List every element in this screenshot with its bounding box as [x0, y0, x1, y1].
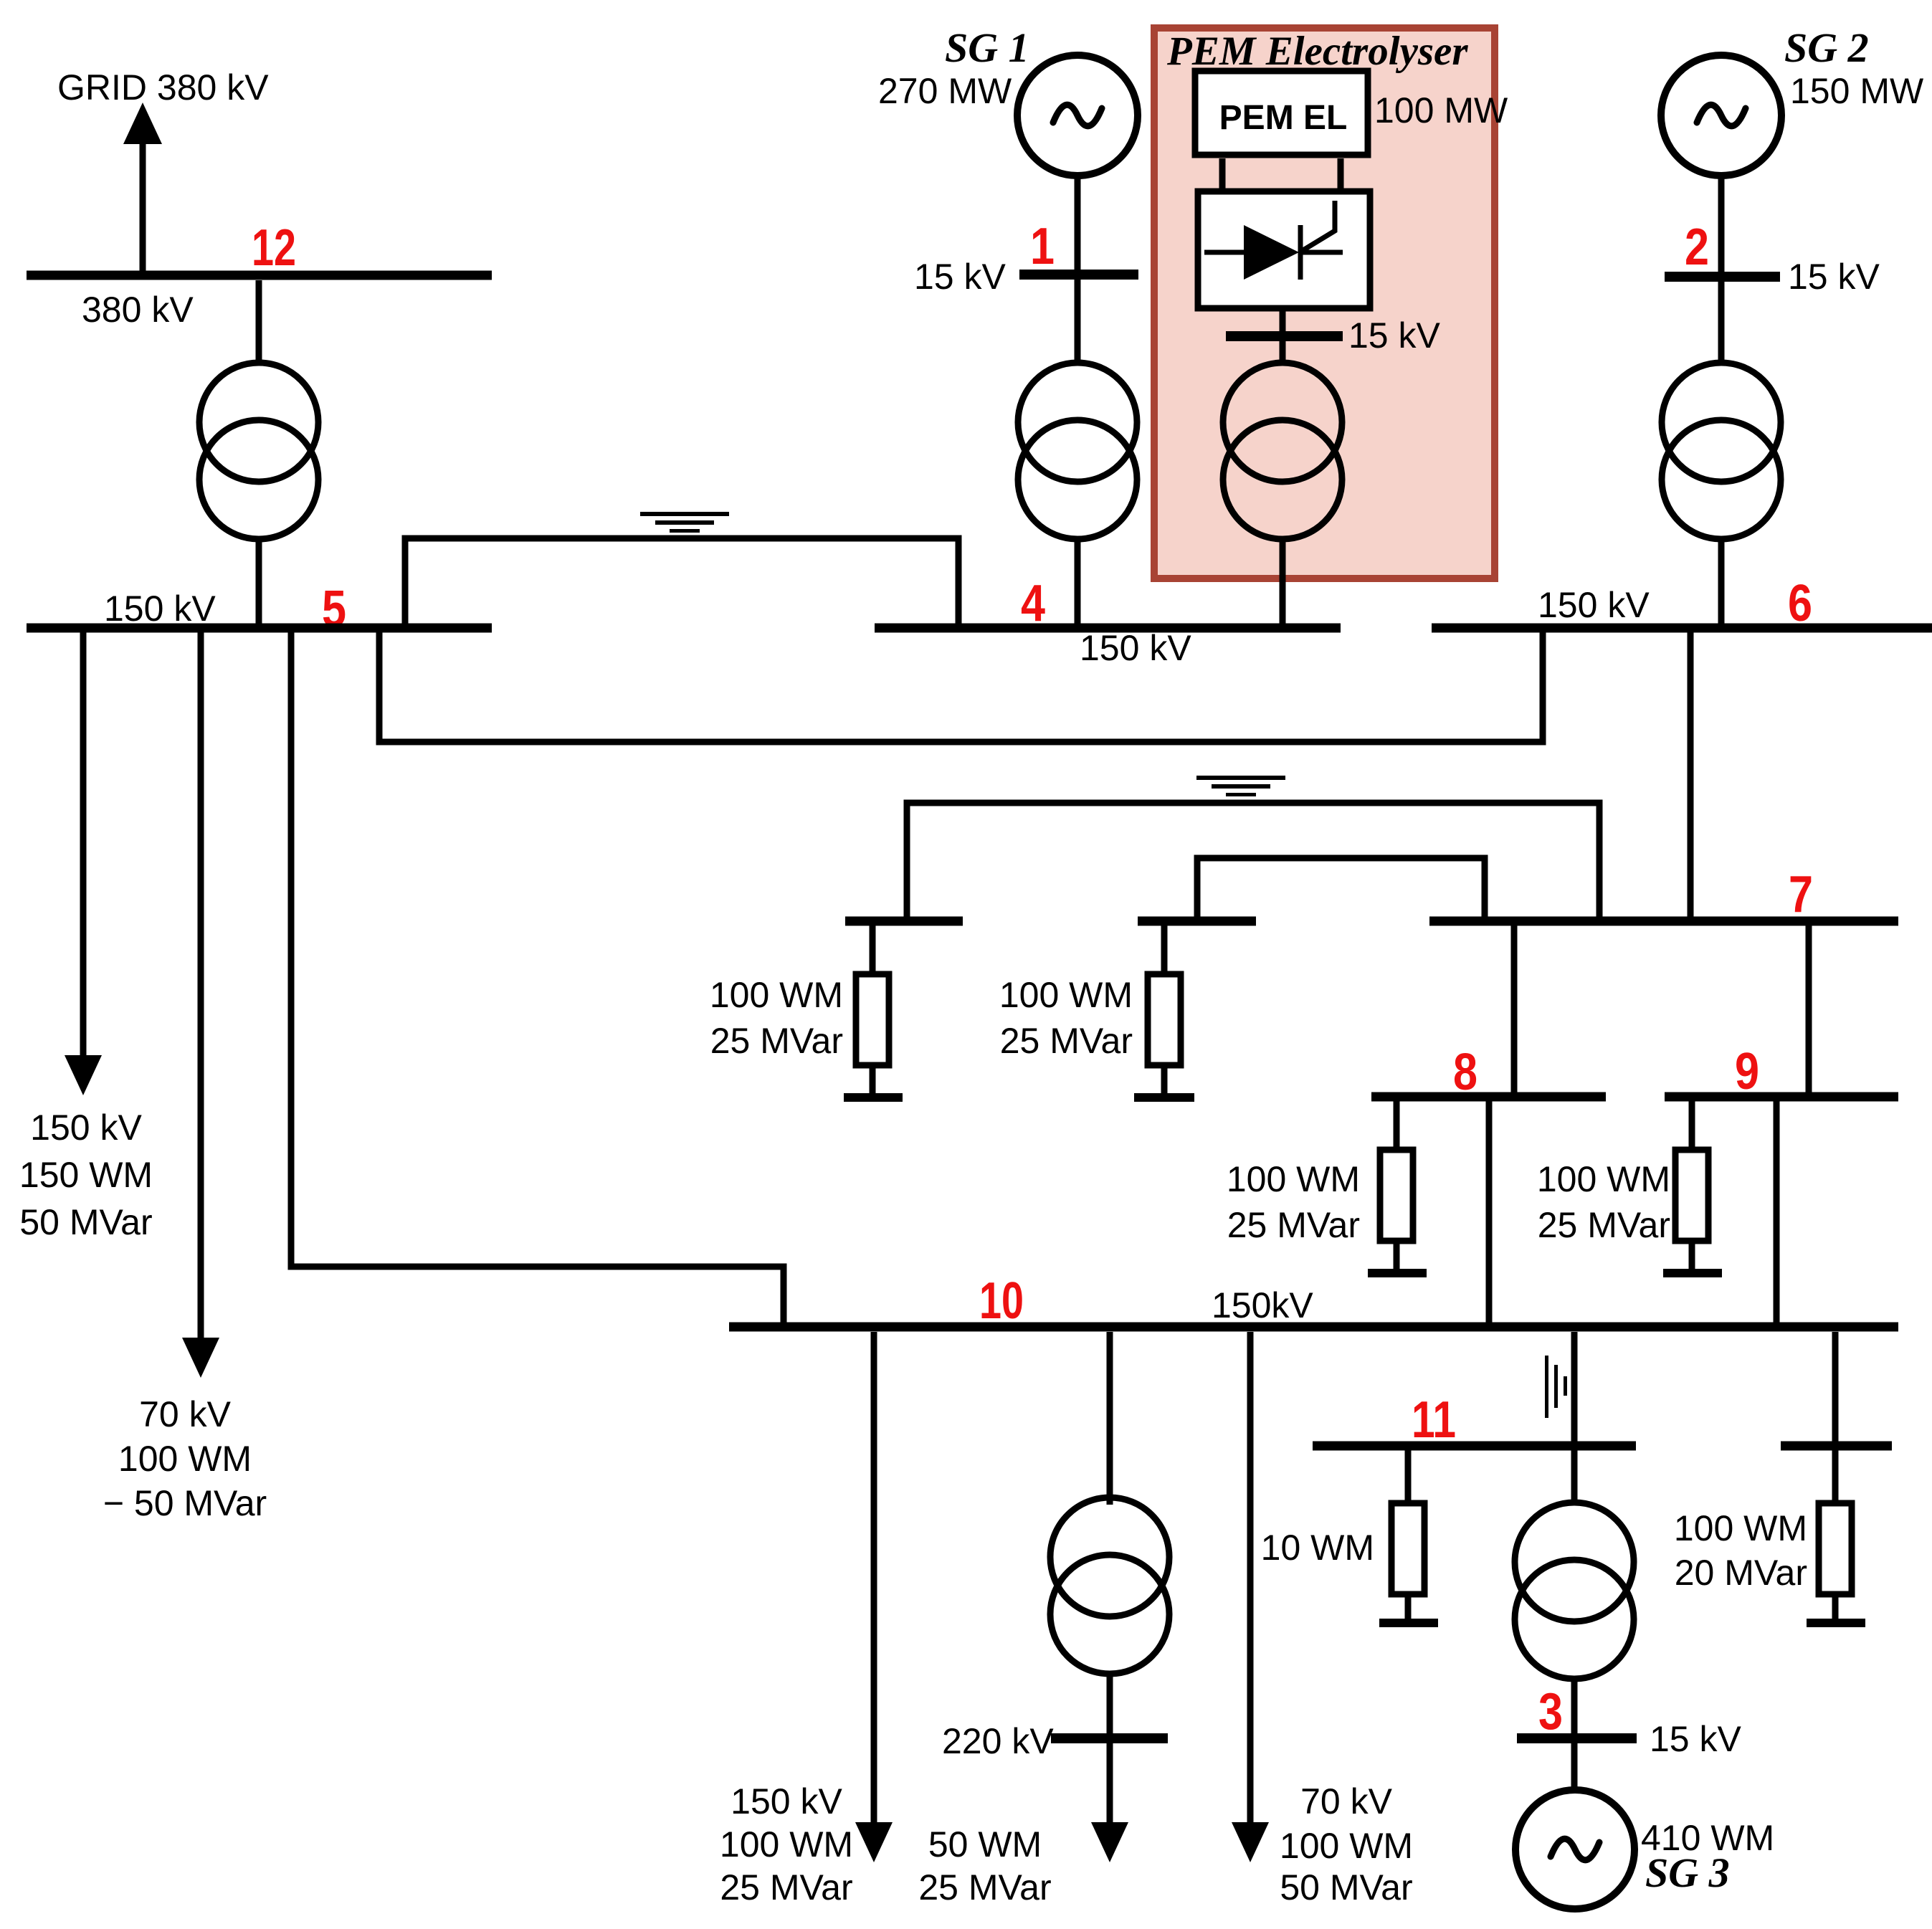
transformer T10-220 — [1050, 1497, 1169, 1674]
wire bus3 to SG3 — [1571, 1743, 1578, 1794]
load arrowhead 70kV — [1232, 1822, 1269, 1862]
wire bus8 to bus10 — [1486, 1101, 1493, 1327]
wire bus9 to bus10 — [1774, 1101, 1780, 1327]
svg-text:PEM EL: PEM EL — [1219, 99, 1348, 137]
svg-text:100 WM: 100 WM — [999, 975, 1133, 1015]
svg-text:10: 10 — [979, 1272, 1024, 1330]
svg-text:PEM Electrolyser: PEM Electrolyser — [1166, 29, 1468, 74]
svg-text:25 MVar: 25 MVar — [1227, 1205, 1360, 1245]
load arrow wire from bus5 — [80, 632, 87, 1058]
load 2 end bar — [1134, 1093, 1194, 1102]
load 6 end bar — [1807, 1619, 1865, 1627]
transformer T1-4 — [1018, 363, 1137, 539]
load 4 wire upper — [1689, 1101, 1695, 1150]
wire bus10 to load6 cap — [1832, 1332, 1839, 1446]
bus 2 — [1665, 272, 1780, 282]
svg-text:380 kV: 380 kV — [82, 290, 194, 330]
wire transformer to bus3 — [1571, 1676, 1578, 1738]
svg-text:100 WM: 100 WM — [1537, 1159, 1670, 1199]
load bus cap 2 — [1138, 917, 1256, 926]
line marker on line 5-4 — [640, 512, 729, 533]
svg-text:1: 1 — [1030, 218, 1055, 275]
transformer T2-6 — [1662, 363, 1781, 539]
PEM 15kV bus — [1226, 331, 1343, 341]
svg-text:50 MVar: 50 MVar — [1280, 1867, 1412, 1907]
svg-text:GRID 380 kV: GRID 380 kV — [57, 67, 269, 108]
svg-text:8: 8 — [1453, 1044, 1477, 1101]
wire bus12 to transformer — [256, 280, 262, 365]
svg-text:150 kV: 150 kV — [1538, 585, 1650, 625]
svg-text:50 WM: 50 WM — [928, 1824, 1042, 1864]
wire line B bus7 to load bus — [1197, 858, 1485, 921]
svg-text:150 MW: 150 MW — [1790, 71, 1924, 111]
load 2 resistor — [1148, 974, 1181, 1065]
svg-text:15 kV: 15 kV — [1650, 1719, 1742, 1759]
wire bus7 to bus8 — [1511, 925, 1518, 1097]
load 5 wire upper — [1405, 1450, 1412, 1503]
load 1 end bar — [844, 1093, 903, 1102]
wire transformer to bus6 — [1718, 536, 1725, 628]
220 kV bus — [1051, 1733, 1168, 1743]
load bus cap 6 — [1781, 1442, 1892, 1451]
bus 5 — [27, 624, 492, 633]
converter box — [1198, 191, 1370, 308]
svg-text:100 WM: 100 WM — [1227, 1159, 1360, 1199]
generator SG3 — [1515, 1790, 1634, 1909]
svg-text:100 WM: 100 WM — [720, 1824, 853, 1864]
wire bus6 to bus7 — [1688, 632, 1694, 921]
svg-text:70 kV: 70 kV — [139, 1394, 232, 1434]
wire line bus5 to bus4 — [405, 538, 958, 628]
wire PEM EL to converter left — [1219, 158, 1226, 189]
wire SG2 to bus2 — [1718, 173, 1725, 277]
bus 9 — [1665, 1092, 1898, 1102]
load 2 wire lower — [1161, 1065, 1168, 1097]
load 4 end bar — [1663, 1269, 1722, 1277]
svg-text:4: 4 — [1021, 575, 1045, 632]
transformer T11-3 — [1515, 1502, 1634, 1679]
wire PEM EL to converter right — [1338, 158, 1344, 189]
wire bus11 to transformer T11 — [1571, 1450, 1578, 1505]
svg-text:6: 6 — [1788, 575, 1812, 632]
svg-text:15 kV: 15 kV — [914, 257, 1007, 297]
generator SG2 — [1661, 55, 1781, 176]
svg-text:11: 11 — [1412, 1391, 1456, 1449]
svg-text:25 MVar: 25 MVar — [1538, 1205, 1670, 1245]
svg-text:220 kV: 220 kV — [942, 1721, 1054, 1761]
svg-text:12: 12 — [252, 219, 296, 277]
svg-text:100 WM: 100 WM — [710, 975, 843, 1015]
load 3 resistor — [1380, 1150, 1413, 1241]
load 6 wire upper — [1832, 1450, 1839, 1503]
load 1 wire upper — [870, 925, 876, 974]
bus 7 — [1429, 917, 1898, 926]
wire transformer to 220kV bus — [1107, 1672, 1113, 1738]
line marker on line 10-11 — [1545, 1356, 1567, 1418]
svg-text:70 kV: 70 kV — [1300, 1781, 1393, 1821]
svg-text:150 kV: 150 kV — [30, 1108, 142, 1148]
svg-text:100 WM: 100 WM — [1674, 1508, 1807, 1548]
wire PEM transformer to bus4 — [1280, 536, 1286, 628]
svg-text:150 kV: 150 kV — [104, 589, 216, 629]
svg-text:25 MVar: 25 MVar — [720, 1867, 852, 1907]
load arrow wire 70kV from bus10 — [1247, 1332, 1254, 1822]
svg-text:150kV: 150kV — [1212, 1285, 1313, 1325]
bus 4 — [875, 624, 1341, 633]
load 6 wire lower — [1832, 1594, 1839, 1623]
svg-text:3: 3 — [1538, 1683, 1563, 1740]
load 4 wire lower — [1689, 1241, 1695, 1273]
load 5 end bar — [1379, 1619, 1438, 1627]
wire bus2 to transformer — [1718, 282, 1725, 365]
wire transformer to bus4 — [1075, 536, 1081, 628]
bus 11 — [1313, 1442, 1636, 1451]
load 4 resistor — [1675, 1150, 1708, 1241]
wire converter to PEM bus — [1280, 308, 1286, 331]
load bus cap 1 — [845, 917, 963, 926]
svg-text:15 kV: 15 kV — [1348, 315, 1441, 356]
bus 10 — [729, 1323, 1898, 1332]
wire line bus5 to bus6 — [379, 632, 1543, 742]
grid arrowhead — [123, 103, 162, 144]
svg-text:100 WM: 100 WM — [1280, 1826, 1413, 1866]
wire transformer to bus5 — [256, 536, 262, 628]
bus 3 — [1517, 1733, 1637, 1743]
svg-text:9: 9 — [1735, 1043, 1759, 1100]
wire line A bus7 to load bus — [907, 803, 1599, 921]
svg-text:SG 3: SG 3 — [1645, 1849, 1730, 1896]
load 6 resistor — [1819, 1503, 1852, 1594]
svg-text:150 WM: 150 WM — [19, 1155, 153, 1195]
grid arrow wire — [140, 140, 146, 275]
wire bus7 to bus9 — [1806, 925, 1812, 1097]
wire line bus5 to bus10 — [291, 632, 784, 1328]
load 2 wire upper — [1161, 925, 1168, 974]
svg-text:7: 7 — [1789, 866, 1813, 923]
bus 12 — [27, 271, 492, 280]
load 1 wire lower — [870, 1065, 876, 1097]
arrow wire below 220kV bus — [1107, 1743, 1113, 1822]
wire SG1 to bus1 — [1075, 173, 1081, 275]
svg-text:SG 2: SG 2 — [1784, 24, 1869, 71]
line marker on line A — [1196, 776, 1285, 796]
svg-text:25 MVar: 25 MVar — [710, 1021, 843, 1061]
transformer T-PEM — [1223, 363, 1342, 539]
bus 6 — [1432, 624, 1932, 633]
wire bus10 to bus11 — [1571, 1332, 1578, 1446]
svg-text:270 MW: 270 MW — [878, 71, 1012, 111]
transformer T12-5 — [199, 363, 318, 539]
load 3 wire lower — [1394, 1241, 1400, 1273]
PEM EL box — [1195, 71, 1368, 155]
load 5 wire lower — [1405, 1594, 1412, 1623]
wire PEM bus to transformer — [1280, 341, 1286, 365]
arrowhead 220kV load — [1091, 1822, 1128, 1862]
svg-text:SG 1: SG 1 — [945, 24, 1029, 71]
load arrow wire 2 from bus5 — [198, 632, 204, 1340]
svg-text:150 kV: 150 kV — [731, 1781, 842, 1821]
svg-text:10 WM: 10 WM — [1261, 1528, 1374, 1568]
bus 8 — [1371, 1092, 1606, 1102]
svg-text:2: 2 — [1685, 219, 1709, 276]
svg-text:20 MVar: 20 MVar — [1675, 1553, 1807, 1593]
svg-text:25 MVar: 25 MVar — [918, 1867, 1051, 1907]
PEM Electrolyser enclosure box — [1154, 28, 1495, 578]
svg-text:50 MVar: 50 MVar — [19, 1202, 152, 1242]
load arrow wire from bus10 — [871, 1332, 877, 1822]
wire bus10 to transformer T10 — [1107, 1332, 1113, 1505]
load arrowhead 70kV load — [182, 1338, 219, 1378]
load 3 end bar — [1368, 1269, 1427, 1277]
load 1 resistor — [856, 974, 889, 1065]
load arrowhead bus10 — [855, 1822, 893, 1862]
load 5 resistor — [1391, 1503, 1424, 1594]
svg-text:100 MW: 100 MW — [1374, 90, 1508, 130]
svg-text:15 kV: 15 kV — [1788, 257, 1880, 297]
load 3 wire upper — [1394, 1101, 1400, 1150]
svg-text:− 50 MVar: − 50 MVar — [103, 1483, 267, 1523]
svg-text:150 kV: 150 kV — [1080, 628, 1191, 668]
bus 1 — [1019, 270, 1138, 280]
svg-text:100 WM: 100 WM — [118, 1439, 252, 1479]
load arrowhead 150kV load — [65, 1055, 102, 1095]
svg-text:25 MVar: 25 MVar — [1000, 1021, 1133, 1061]
generator SG1 — [1017, 55, 1138, 176]
wire bus1 to transformer — [1075, 280, 1081, 365]
thyristor symbol — [1204, 201, 1343, 280]
